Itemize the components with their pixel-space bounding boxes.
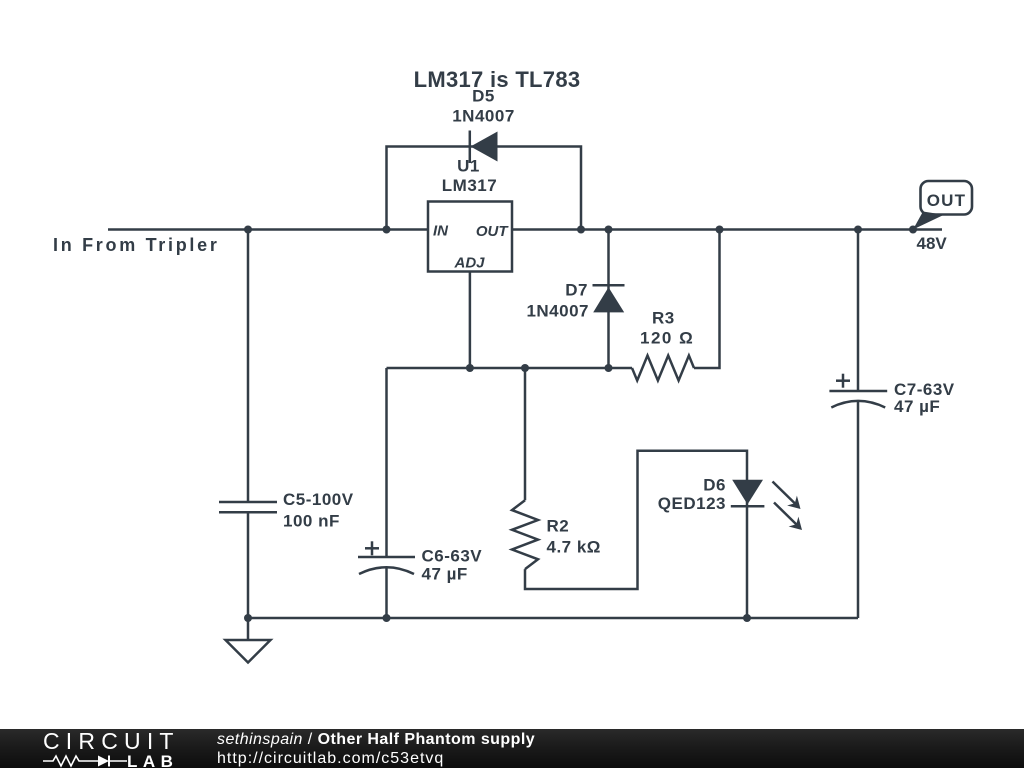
junction dot ADJ net/R2 — [521, 364, 529, 372]
svg-text:100 nF: 100 nF — [283, 512, 340, 531]
svg-text:4.7 kΩ: 4.7 kΩ — [547, 538, 601, 557]
op-amp box U1 LM317 body — [428, 202, 512, 272]
junction dot ADJ net/U1 — [466, 364, 474, 372]
wire: ground/bottom net at y=618 — [248, 617, 858, 620]
ground symbol — [247, 618, 250, 640]
node flag OUT pointer tail — [913, 212, 944, 230]
svg-text:1N4007: 1N4007 — [526, 302, 589, 321]
diode D7 triangle — [593, 287, 624, 312]
node flag OUT body — [921, 181, 973, 215]
svg-text:D7: D7 — [565, 281, 588, 300]
LED D6 cathode bar — [731, 505, 765, 508]
wire: R2 top lead — [524, 368, 527, 500]
svg-text:R2: R2 — [547, 517, 570, 536]
wire: main output net at y=229.5 (right of U1) — [512, 228, 942, 231]
resistor R2 zigzag — [512, 500, 538, 569]
svg-text:R3: R3 — [652, 309, 675, 328]
junction dot main/D5-loop-left — [383, 226, 391, 234]
LED D6 light arrow 1 line — [773, 482, 796, 504]
svg-text:D5: D5 — [472, 87, 495, 106]
svg-text:C5-100V: C5-100V — [283, 490, 354, 509]
svg-text:47 µF: 47 µF — [422, 565, 468, 584]
junction dot main/R3 — [716, 226, 724, 234]
junction dot bottom/C6 — [383, 614, 391, 622]
svg-text:1N4007: 1N4007 — [452, 107, 515, 126]
svg-text:120 Ω: 120 Ω — [640, 329, 694, 348]
CircuitLab logo: resistor-diode glyph — [43, 754, 133, 768]
svg-text:C6-63V: C6-63V — [422, 547, 483, 566]
CircuitLab logo: LAB text — [127, 752, 178, 772]
footer: author / title text — [217, 731, 535, 749]
junction dot ADJ net/D7 — [605, 364, 613, 372]
capacitor C6 plates — [358, 556, 415, 559]
svg-text:IN: IN — [433, 222, 449, 239]
svg-text:OUT: OUT — [927, 191, 966, 210]
svg-text:OUT: OUT — [476, 223, 510, 240]
svg-text:LM317 is TL783: LM317 is TL783 — [414, 67, 581, 92]
wire: C7 branch vertical — [857, 230, 860, 392]
LED D6 triangle — [732, 480, 763, 505]
footer: url text — [217, 750, 444, 768]
LED D6 arrow 2 head — [789, 517, 802, 530]
footer bar — [0, 729, 1024, 768]
CircuitLab logo: CIRCUIT text — [43, 728, 183, 755]
diode D7 cathode bar — [593, 284, 625, 287]
svg-text:D6: D6 — [703, 476, 726, 495]
wire: ADJ net horizontal at y=368 — [387, 367, 633, 370]
svg-text:ADJ: ADJ — [453, 255, 485, 272]
capacitor C7 plates — [829, 390, 887, 393]
junction dot main/C5 — [244, 226, 252, 234]
capacitor C7 plus sign — [836, 379, 850, 382]
svg-text:47 µF: 47 µF — [894, 397, 940, 416]
diode D5 triangle — [471, 132, 498, 162]
svg-text:In From Tripler: In From Tripler — [53, 235, 220, 255]
svg-text:48V: 48V — [917, 234, 948, 253]
junction dot main/OUT flag — [909, 226, 917, 234]
wire: D7 branch vertical — [607, 230, 610, 369]
wire: main input/output net at y=229.5 (left of U1) — [108, 228, 428, 231]
svg-text:LM317: LM317 — [442, 176, 497, 195]
resistor R3 zigzag — [632, 356, 694, 381]
wire: R3 right lead up to output net — [694, 230, 720, 369]
wire: ADJ pin down from U1 — [469, 272, 472, 369]
junction dot main/C7 — [854, 226, 862, 234]
junction dot main/D5-loop-right — [577, 226, 585, 234]
junction dot main/D7 — [605, 226, 613, 234]
LED D6 arrow 1 head — [787, 496, 800, 509]
wire: C5 branch vertical — [247, 230, 250, 503]
wire: C6 branch vertical — [385, 368, 388, 557]
wire: R2 bottom lead to LED loop — [525, 451, 747, 618]
LED D6 light arrow 2 line — [774, 503, 797, 525]
svg-text:QED123: QED123 — [658, 494, 726, 513]
diode D5 cathode bar — [469, 131, 472, 164]
junction dot bottom/LED — [743, 614, 751, 622]
junction dot bottom/C5-ground — [244, 614, 252, 622]
capacitor C5 plates — [219, 501, 277, 504]
wire: D5 bypass loop around U1 — [387, 147, 582, 230]
capacitor C6 plus sign — [365, 547, 379, 550]
svg-text:U1: U1 — [457, 157, 480, 176]
